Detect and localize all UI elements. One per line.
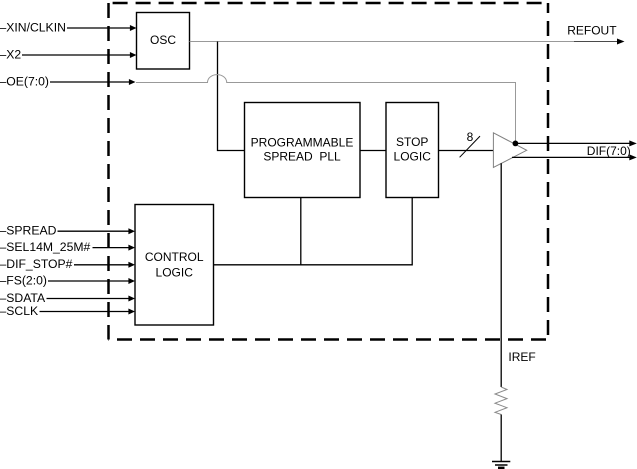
svg-text:–OE(7:0): –OE(7:0) [0,74,49,88]
bus width slash [460,136,480,157]
wire DIF top line [515,142,630,144]
CONTROL LOGIC block [135,205,214,326]
svg-text:REFOUT: REFOUT [567,23,617,37]
svg-text:–X2: –X2 [0,47,21,61]
OSC block [137,13,190,70]
output buffer U1 (triangle) [493,133,526,168]
svg-text:8: 8 [467,130,474,144]
wire OSC output to REFOUT (gray) [190,41,575,43]
ground [492,462,510,468]
wire PLL to STOP LOGIC [360,150,386,152]
svg-text:–SCLK: –SCLK [0,304,38,318]
svg-text:–FS(2:0): –FS(2:0) [0,273,47,287]
STOP LOGIC block [386,103,439,198]
PLL block [245,103,361,198]
DIF bottom arrowhead [629,154,637,160]
wire IREF (from buffer bottom edge down) [500,163,502,387]
svg-text:–SPREAD: –SPREAD [0,224,57,238]
chip boundary (dashed box) [109,3,549,340]
pin X2 [0,47,137,61]
wire branch up to PLL bottom [300,198,302,265]
junction dot on buffer output [513,141,519,147]
REFOUT arrowhead [617,39,625,45]
wire OE routing (gray with hop over vertical) [136,75,516,144]
wire REFOUT dark segment [574,41,619,43]
svg-text:PROGRAMMABLE: PROGRAMMABLE [251,136,354,150]
svg-text:DIF(7:0): DIF(7:0) [587,144,631,158]
pin SEL14M_25M# [0,240,135,254]
wire CONTROL LOGIC to PLL and STOP LOGIC [214,198,413,265]
wire resistor to ground [500,415,502,462]
pin SPREAD [0,224,135,238]
svg-text:–DIF_STOP#: –DIF_STOP# [0,257,73,271]
pin SDATA [0,291,135,305]
bus STOP LOGIC to output buffer [439,150,494,152]
svg-text:SPREAD PLL: SPREAD PLL [263,150,341,164]
svg-text:CONTROL: CONTROL [145,250,204,264]
wire DIF bottom line [512,156,630,158]
svg-text:OSC: OSC [150,33,176,47]
pin FS(2:0) [0,273,135,287]
svg-text:–SDATA: –SDATA [0,291,46,305]
svg-text:LOGIC: LOGIC [394,150,432,164]
pin OE(7:0) [0,74,136,88]
resistor R1 (zigzag) [495,387,507,415]
pin SCLK [0,304,135,318]
svg-text:–XIN/CLKIN: –XIN/CLKIN [0,20,66,34]
svg-text:IREF: IREF [508,350,535,364]
pin DIF_STOP# [0,257,135,271]
pin XIN/CLKIN [0,20,137,34]
svg-text:STOP: STOP [396,135,428,149]
wire OSC to PLL (vertical drop and into PLL) [218,42,245,151]
svg-text:–SEL14M_25M#: –SEL14M_25M# [0,240,91,254]
DIF top arrowhead [629,140,637,146]
svg-text:LOGIC: LOGIC [156,266,194,280]
